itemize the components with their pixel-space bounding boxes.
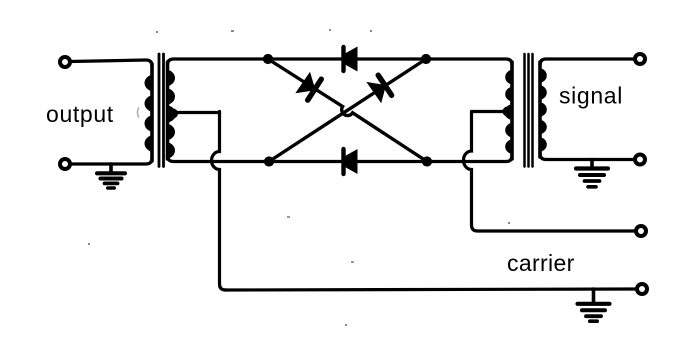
terminal signal bottom bbox=[635, 155, 645, 165]
svg-text:signal: signal bbox=[559, 83, 623, 109]
wire carrier bottom rail bbox=[225, 289, 637, 290]
faint scan arc near T1 bbox=[138, 108, 139, 117]
svg-text:carrier: carrier bbox=[507, 250, 575, 276]
transformer T1 secondary winding line bbox=[166, 62, 170, 159]
ground output bbox=[97, 164, 125, 188]
wire T1 tap vertical with hop over bottom rail bbox=[212, 112, 226, 291]
wire T1 secondary top to node A bbox=[168, 59, 269, 65]
transformer T2 primary bumps bbox=[504, 70, 513, 154]
diode D1 top (points left) bbox=[344, 47, 358, 72]
transformer T2 primary winding line bbox=[510, 62, 514, 159]
wire T1 center tap horizontal bbox=[172, 111, 220, 114]
diode D3 on A-C diagonal (points to C) bbox=[295, 72, 321, 100]
scan noise specks bbox=[88, 29, 510, 326]
wire diagonal A to C with hop at crossing bbox=[268, 59, 427, 162]
terminal output top bbox=[60, 57, 70, 67]
wire diagonal D to B bbox=[269, 59, 426, 162]
transformer T1 primary bumps bbox=[145, 75, 154, 152]
transformer T2 secondary winding line bbox=[538, 62, 542, 157]
wire output top to T1 primary bbox=[70, 60, 152, 66]
diode D4 on D-B diagonal (points to B) bbox=[366, 75, 391, 103]
wire output bottom to T1 primary bbox=[70, 158, 152, 164]
node D bbox=[264, 156, 274, 166]
node C bbox=[422, 156, 432, 166]
wire T2 tap vertical with hop over bottom rail to carrier top terminal bbox=[463, 112, 636, 232]
node T2 center tap bbox=[503, 107, 513, 117]
wire T2 center tap horizontal bbox=[472, 110, 509, 113]
diode D2 bottom (points left) bbox=[344, 149, 358, 174]
svg-text:output: output bbox=[46, 101, 114, 127]
wire node C to T2 primary bottom (passes hop) bbox=[427, 156, 512, 162]
terminal output bottom bbox=[60, 159, 70, 169]
wire T1 secondary bottom to node D bbox=[168, 156, 270, 162]
wire node B to T2 primary top bbox=[426, 59, 512, 65]
wire T2 secondary bottom to signal bottom terminal bbox=[540, 154, 635, 160]
node B bbox=[421, 54, 431, 64]
transformer T1 primary winding line bbox=[150, 64, 154, 161]
terminal carrier top bbox=[636, 226, 646, 236]
wire T2 secondary top to signal top terminal bbox=[540, 59, 635, 65]
transformer T1 core bbox=[159, 54, 164, 167]
transformer T2 secondary bumps bbox=[539, 68, 547, 151]
node T1 center tap bbox=[168, 109, 178, 119]
node A bbox=[263, 54, 273, 64]
ground carrier bbox=[578, 289, 610, 321]
wire top rail A to B bbox=[268, 57, 426, 60]
wire bottom rail D to C bbox=[269, 160, 427, 163]
transformer T1 secondary bumps bbox=[166, 70, 176, 159]
terminal carrier bottom bbox=[637, 284, 647, 294]
transformer T2 core bbox=[525, 54, 533, 167]
ground signal bbox=[576, 160, 608, 187]
terminal signal top bbox=[635, 54, 645, 64]
